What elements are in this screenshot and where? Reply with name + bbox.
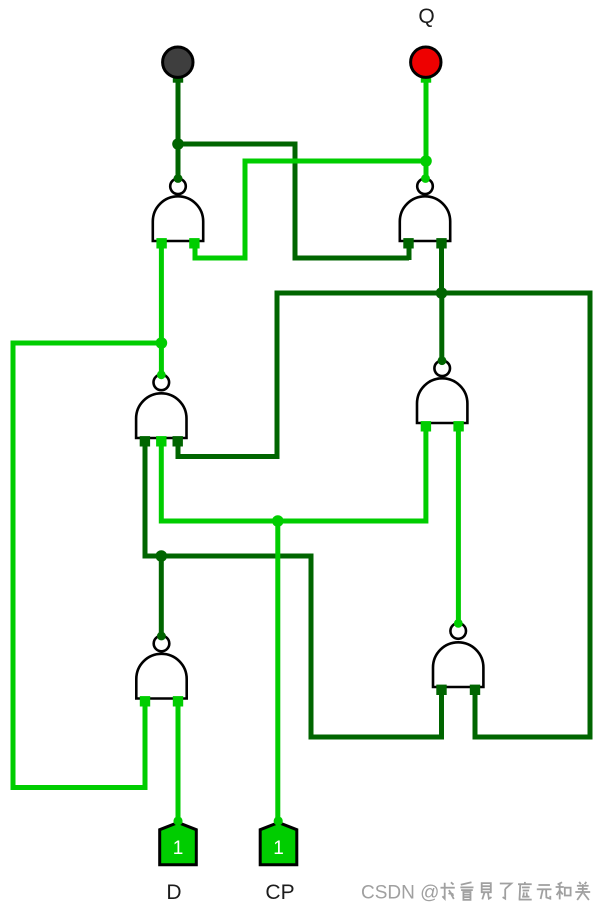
svg-text:D: D bbox=[166, 881, 181, 904]
svg-text:CP: CP bbox=[265, 881, 294, 904]
svg-text:1: 1 bbox=[173, 838, 184, 859]
junction bright at (161.4,343) bbox=[156, 337, 168, 349]
wire net U4out dark: junction down to U4 bubble bbox=[439, 293, 444, 359]
input pin CP bbox=[260, 816, 297, 864]
wire net Qout bright: fanout to U1 right input bbox=[195, 161, 426, 258]
wire net CP bright: horizontal y=521 joining U3 mid input and U4 left input bbox=[161, 425, 426, 521]
wire net U5out dark: U3 left input down, along y=556 to x=311 loop to U6 left input bbox=[145, 441, 442, 737]
nand gate U6 (bottom-right) bbox=[433, 623, 483, 687]
U1 input pin squares bbox=[156, 238, 199, 248]
U1 output tip dot bbox=[174, 174, 183, 183]
junction dark at (178,144) bbox=[172, 138, 184, 150]
lamp Q̅ (dark, off) bbox=[163, 47, 193, 77]
U2 input pin squares bbox=[403, 238, 446, 248]
nand gate U1 (top-left) bbox=[153, 179, 203, 242]
U6 output tip dot bbox=[454, 619, 463, 628]
wire net Q̅out dark: fanout to U2 left input bbox=[176, 144, 410, 260]
lamp Q (red, on) connector square bbox=[421, 72, 431, 82]
wire net U3out bright: U1 left input down to U3 bubble bbox=[159, 243, 164, 374]
U3 output tip dot bbox=[157, 370, 166, 379]
U5 input pin squares bbox=[140, 696, 183, 706]
wire net U4out dark: U2 right input down to junction bbox=[439, 243, 444, 293]
watermark CJK glyph strokes bbox=[441, 882, 591, 900]
U4 output tip dot bbox=[438, 356, 447, 365]
nand gate U5 (bottom-left) bbox=[136, 636, 186, 699]
wire net CP bright: vertical from CP pin bbox=[275, 521, 280, 820]
junction dark at (161.3,556) bbox=[156, 550, 168, 562]
wire net Qout bright: red lamp stem x=426 bbox=[424, 74, 429, 180]
junction bright at (426,161) bbox=[420, 155, 432, 167]
U6 input pin squares bbox=[436, 685, 480, 695]
wire net U5out dark: junction down to U5 bubble bbox=[159, 556, 164, 636]
lamp Q̅ (dark, off) connector square bbox=[173, 72, 183, 82]
nand gate U2 (top-right) bbox=[400, 179, 450, 242]
nand gate U4 (middle-right) bbox=[417, 361, 467, 424]
svg-text:Q: Q bbox=[418, 5, 434, 28]
U5 output tip dot bbox=[157, 632, 166, 641]
U3 input pin squares bbox=[140, 436, 183, 446]
wire net D bright: U5 right input down to D pin bbox=[176, 701, 181, 820]
wire net U4out dark: junction to U3 right input via x=277 bbox=[178, 293, 442, 457]
wire net U3out bright: feedback loop left edge to U5 left input bbox=[13, 343, 161, 788]
lamp Q (red, on) bbox=[411, 47, 441, 77]
wire net U4out dark: junction to U6 right input via x=588 bbox=[442, 293, 591, 737]
junction bright at (277.8,521) bbox=[272, 515, 284, 527]
svg-text:CSDN @: CSDN @ bbox=[361, 883, 439, 904]
U2 output tip dot bbox=[421, 174, 430, 183]
input pin D bbox=[160, 816, 197, 864]
wire net U6out bright: U4 right input down to U6 bubble bbox=[456, 425, 461, 623]
nand gate U3 (middle-left, 3-input) bbox=[136, 375, 186, 438]
wire net Q̅out dark: lamp stem x=178 bbox=[176, 74, 181, 180]
U4 input pin squares bbox=[421, 421, 464, 431]
junction dark at (441.5,293) bbox=[436, 287, 448, 299]
svg-text:1: 1 bbox=[273, 838, 284, 859]
